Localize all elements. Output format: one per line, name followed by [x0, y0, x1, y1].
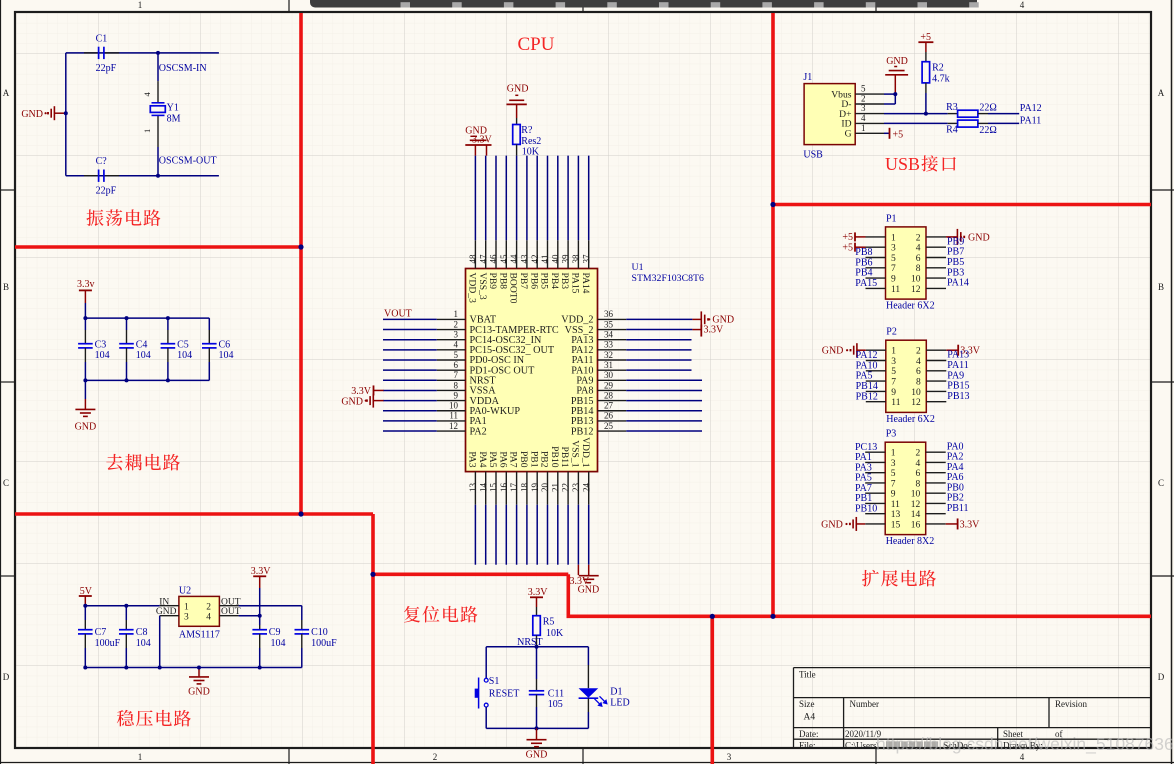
- svg-text:105: 105: [548, 699, 563, 710]
- switch S1 RESET: [485, 647, 487, 679]
- svg-text:Header 8X2: Header 8X2: [886, 536, 935, 547]
- svg-text:35: 35: [604, 319, 614, 329]
- svg-text:R2: R2: [932, 63, 944, 74]
- resistor R4: [948, 122, 958, 124]
- capacitor C3: [84, 318, 86, 330]
- svg-text:40: 40: [550, 254, 560, 264]
- section title regulator: [117, 710, 191, 727]
- svg-text:A: A: [3, 88, 10, 98]
- svg-text:11: 11: [449, 411, 458, 421]
- svg-text:VSS_3: VSS_3: [477, 273, 488, 300]
- capacitor C10: [301, 606, 303, 620]
- wire to PA12: [988, 113, 1019, 115]
- regulator U2 AMS1117: [179, 596, 220, 626]
- svg-text:AMS1117: AMS1117: [179, 630, 220, 641]
- header P3 pin 4: [926, 461, 946, 463]
- svg-text:GND: GND: [822, 346, 844, 357]
- header P3 pin 11: [865, 502, 885, 504]
- svg-text:7: 7: [454, 370, 459, 380]
- svg-text:18: 18: [520, 483, 530, 493]
- header P1 pin 12: [926, 287, 946, 289]
- svg-text:3.3v: 3.3v: [77, 279, 95, 290]
- ground GND right of U1: [692, 318, 701, 320]
- header P1 pin 4: [926, 246, 946, 248]
- svg-text:9: 9: [891, 388, 896, 398]
- svg-text:43: 43: [520, 254, 530, 264]
- svg-text:RESET: RESET: [489, 689, 520, 700]
- header P3 pin 2: [926, 451, 946, 453]
- microcontroller U1 STM32F103C8T6 body: [466, 269, 598, 472]
- svg-text:4: 4: [1020, 0, 1025, 10]
- svg-text:11: 11: [891, 500, 900, 510]
- svg-text:R3: R3: [946, 102, 958, 113]
- svg-text:S1: S1: [489, 676, 500, 687]
- svg-text:4: 4: [916, 244, 921, 254]
- U1 left wires: [383, 318, 437, 320]
- svg-text:22Ω: 22Ω: [979, 125, 996, 136]
- svg-text:42: 42: [530, 255, 540, 264]
- svg-text:PB11: PB11: [559, 447, 570, 468]
- svg-text:PB9: PB9: [487, 273, 498, 290]
- svg-text:3.3V: 3.3V: [528, 587, 549, 598]
- svg-text:104: 104: [177, 350, 192, 361]
- oscillator left wire: [65, 53, 67, 176]
- capacitor C6: [208, 318, 210, 330]
- svg-text:PB8: PB8: [497, 273, 508, 290]
- svg-text:A: A: [1158, 88, 1165, 98]
- svg-text:PA11: PA11: [1020, 115, 1042, 126]
- header P2 pin 9: [866, 390, 886, 392]
- svg-text:29: 29: [604, 380, 614, 390]
- svg-text:VDD_3: VDD_3: [467, 273, 478, 304]
- header P3 pin 6: [926, 472, 946, 474]
- header P3 pin 7: [865, 482, 885, 484]
- header P3 pin 13: [865, 513, 885, 515]
- svg-text:2: 2: [454, 319, 459, 329]
- section divider vertical x301: [299, 13, 303, 514]
- svg-text:U1: U1: [632, 262, 644, 273]
- svg-text:28: 28: [604, 390, 614, 400]
- svg-text:G: G: [845, 129, 852, 140]
- ground GND P1 pin 2: [956, 229, 958, 245]
- wire to PA11: [988, 122, 1019, 124]
- power port 3.3V P3 pin 16: [957, 518, 959, 529]
- svg-text:3.3V: 3.3V: [960, 519, 981, 530]
- header P3 pin 12: [926, 502, 946, 504]
- reset bottom rail: [486, 727, 588, 729]
- svg-text:1: 1: [454, 309, 459, 319]
- svg-text:Revision: Revision: [1055, 699, 1088, 709]
- svg-text:2: 2: [916, 347, 921, 357]
- svg-text:VSS_1: VSS_1: [570, 440, 581, 467]
- svg-text:4: 4: [206, 613, 211, 623]
- svg-text:3.3V: 3.3V: [251, 566, 272, 577]
- svg-text:10: 10: [449, 401, 459, 411]
- wire D- up to node: [884, 103, 895, 105]
- svg-text:27: 27: [604, 401, 614, 411]
- svg-text:23: 23: [571, 483, 581, 493]
- svg-text:8: 8: [916, 378, 921, 388]
- header P1 pin 1: [866, 236, 886, 238]
- svg-text:USB: USB: [803, 150, 823, 161]
- svg-text:2: 2: [915, 449, 920, 459]
- svg-text:5: 5: [891, 469, 896, 479]
- header P1 pin 9: [866, 277, 886, 279]
- svg-text:22pF: 22pF: [96, 63, 117, 74]
- svg-text:37: 37: [581, 254, 591, 264]
- ground GND USB: [894, 75, 896, 94]
- svg-text:14: 14: [478, 483, 488, 493]
- svg-text:GND: GND: [507, 84, 529, 95]
- svg-text:24: 24: [581, 483, 591, 493]
- header P3 pin 14: [926, 513, 946, 515]
- svg-text:21: 21: [550, 483, 560, 492]
- header P1 pin 2: [926, 236, 946, 238]
- svg-text:PA7: PA7: [508, 451, 519, 467]
- power port +5 P1 pin 3: [854, 243, 856, 252]
- decoupling junction dots: [83, 316, 87, 320]
- svg-text:PB11: PB11: [947, 503, 969, 514]
- svg-text:C8: C8: [136, 627, 148, 638]
- reset top rail: [486, 646, 588, 648]
- sheet outer border: [0, 0, 2, 764]
- header P2 pin 4: [926, 360, 946, 362]
- svg-text:J1: J1: [803, 72, 812, 83]
- svg-text:22pF: 22pF: [96, 186, 117, 197]
- svg-text:C1: C1: [96, 34, 108, 45]
- svg-text:10K: 10K: [546, 628, 564, 639]
- header P2 pin 7: [866, 380, 886, 382]
- U2 pin wires: [160, 605, 179, 607]
- oscillator top wire: [66, 52, 219, 54]
- svg-text:CPU: CPU: [518, 34, 555, 55]
- svg-text:1: 1: [184, 603, 189, 613]
- svg-text:PB1: PB1: [528, 451, 539, 468]
- svg-text:22: 22: [561, 483, 571, 492]
- svg-text:104: 104: [219, 350, 234, 361]
- svg-text:100uF: 100uF: [95, 638, 121, 649]
- svg-text:104: 104: [136, 350, 151, 361]
- header P3 pin 8: [926, 482, 946, 484]
- svg-text:C?: C?: [96, 156, 108, 167]
- section title expansion: [862, 570, 936, 587]
- svg-text:2: 2: [916, 233, 921, 243]
- svg-text:48: 48: [468, 254, 478, 264]
- svg-text:PA2: PA2: [470, 426, 487, 437]
- ground GND decoupling: [84, 380, 86, 399]
- header P2 pin 11: [866, 401, 886, 403]
- svg-text:19: 19: [530, 483, 540, 493]
- regulator output rail pin4: [239, 615, 260, 617]
- header P1 pin 3: [866, 246, 886, 248]
- svg-text:GND: GND: [21, 109, 43, 120]
- svg-text:14: 14: [911, 510, 921, 520]
- svg-text:5: 5: [454, 350, 459, 360]
- svg-text:PB12: PB12: [571, 426, 594, 437]
- svg-text:OSCSM-OUT: OSCSM-OUT: [159, 156, 217, 167]
- svg-text:12: 12: [449, 421, 458, 431]
- svg-text:6: 6: [916, 367, 921, 377]
- wire D+ row: [884, 113, 948, 115]
- header P3 pin 10: [926, 492, 946, 494]
- svg-text:5: 5: [891, 254, 896, 264]
- capacitor C9: [259, 616, 261, 625]
- capacitor C5: [167, 318, 169, 330]
- svg-text:VDD_1: VDD_1: [580, 437, 591, 468]
- svg-text:17: 17: [509, 483, 519, 493]
- header P3: [885, 442, 926, 534]
- svg-text:3: 3: [891, 459, 896, 469]
- U1 left pins: [437, 318, 466, 320]
- svg-text:PA14: PA14: [580, 273, 591, 294]
- svg-text:1: 1: [138, 752, 143, 762]
- svg-text:10: 10: [911, 388, 921, 398]
- svg-text:PB13: PB13: [947, 391, 969, 402]
- svg-text:STM32F103C8T6: STM32F103C8T6: [632, 273, 705, 284]
- header P2: [886, 340, 927, 412]
- svg-text:10K: 10K: [522, 146, 540, 157]
- svg-text:Title: Title: [799, 670, 816, 680]
- svg-text:PB5: PB5: [539, 273, 550, 290]
- svg-text:104: 104: [95, 350, 110, 361]
- svg-text:Number: Number: [850, 699, 880, 709]
- svg-text:45: 45: [499, 254, 509, 264]
- header P2 pin 1: [866, 349, 886, 351]
- power port 3.3V right of U1: [692, 329, 701, 331]
- svg-text:1: 1: [138, 0, 143, 10]
- svg-text:31: 31: [604, 360, 613, 370]
- regulator junction dots: [83, 604, 87, 608]
- svg-text:4: 4: [915, 459, 920, 469]
- svg-text:10: 10: [911, 490, 921, 500]
- header P3 pin 15: [865, 523, 885, 525]
- header P2 pin 12: [926, 401, 946, 403]
- capacitor C11: [536, 647, 538, 679]
- svg-text:USB: USB: [885, 154, 920, 174]
- section divider vertical x773: [771, 13, 775, 616]
- svg-text:3.3V: 3.3V: [704, 325, 725, 336]
- svg-text:2: 2: [433, 752, 438, 762]
- wire Vbus to GND node: [884, 93, 895, 95]
- svg-text:PB10: PB10: [549, 446, 560, 468]
- svg-text:GND: GND: [578, 585, 600, 596]
- section divider horizontal y204: [773, 203, 1151, 207]
- header P3 pin 16: [926, 523, 946, 525]
- header P1 pin 8: [926, 267, 946, 269]
- crystal Y1: [157, 53, 159, 81]
- svg-text:U2: U2: [179, 586, 191, 597]
- svg-text:3: 3: [454, 330, 459, 340]
- svg-text:41: 41: [540, 255, 550, 264]
- header P1 pin 6: [926, 257, 946, 259]
- svg-text:46: 46: [489, 254, 499, 264]
- svg-text:16: 16: [911, 520, 921, 530]
- header P2 pin 10: [926, 390, 946, 392]
- wire ID row: [884, 122, 948, 124]
- svg-text:B: B: [1158, 282, 1164, 292]
- capacitor C4: [126, 318, 128, 330]
- resistor R7: [513, 125, 521, 145]
- ruler ticks: [288, 0, 290, 12]
- power port +5 P1 pin 1: [854, 232, 856, 241]
- svg-text:PA3: PA3: [467, 451, 478, 467]
- svg-text:104: 104: [136, 638, 151, 649]
- section divider horizontal y514: [15, 512, 373, 516]
- header P1 pin 7: [866, 267, 886, 269]
- U1 right pins: [598, 318, 627, 320]
- svg-text:C9: C9: [269, 627, 281, 638]
- junction dot R2-D+: [924, 112, 928, 116]
- svg-text:PB12: PB12: [856, 391, 878, 402]
- svg-text:6: 6: [454, 360, 459, 370]
- header P1 pin 11: [866, 287, 886, 289]
- svg-text:PB7: PB7: [518, 273, 529, 290]
- svg-text:4: 4: [916, 357, 921, 367]
- svg-text:3.3V: 3.3V: [351, 386, 372, 397]
- U1 top wires: [474, 156, 476, 241]
- junction dot Vbus: [893, 92, 897, 96]
- ground GND P2 pin 1: [856, 343, 858, 357]
- svg-text:LED: LED: [610, 698, 629, 709]
- svg-text:https://blog.csdn.net/weixin_5: https://blog.csdn.net/weixin_51087636: [876, 734, 1174, 755]
- svg-text:A4: A4: [804, 713, 816, 723]
- svg-text:5: 5: [891, 367, 896, 377]
- header P2 pin 3: [866, 360, 886, 362]
- svg-text:GND: GND: [75, 422, 97, 433]
- svg-text:D: D: [3, 672, 10, 682]
- svg-text:R4: R4: [946, 125, 958, 136]
- svg-text:12: 12: [911, 500, 921, 510]
- svg-text:PA15: PA15: [570, 273, 581, 294]
- capacitor C8: [125, 606, 127, 620]
- svg-text:12: 12: [911, 285, 921, 295]
- resistor R3: [948, 113, 958, 115]
- svg-text:12: 12: [911, 398, 921, 408]
- svg-text:GND: GND: [341, 397, 363, 408]
- regulator bottom rail: [85, 667, 301, 669]
- svg-text:9: 9: [891, 490, 896, 500]
- svg-text:5: 5: [861, 84, 866, 94]
- resistor R5: [533, 616, 541, 636]
- reset junction dots: [535, 645, 539, 649]
- svg-text:+5: +5: [842, 242, 853, 253]
- svg-text:4.7k: 4.7k: [932, 74, 950, 85]
- svg-text:100uF: 100uF: [311, 638, 337, 649]
- svg-text:GND: GND: [188, 687, 210, 698]
- svg-text:Size: Size: [799, 699, 815, 709]
- U1 top pins: [474, 240, 476, 268]
- svg-text:7: 7: [891, 264, 896, 274]
- svg-text:15: 15: [489, 483, 499, 493]
- svg-text:20: 20: [540, 483, 550, 493]
- svg-text:C: C: [1158, 478, 1164, 488]
- svg-text:OSCSM-IN: OSCSM-IN: [159, 63, 207, 74]
- header P1 pin 5: [866, 257, 886, 259]
- svg-text:GND: GND: [886, 56, 908, 67]
- svg-text:Res2: Res2: [521, 136, 541, 147]
- svg-text:+5: +5: [893, 129, 904, 140]
- svg-text:PB3: PB3: [559, 273, 570, 290]
- svg-text:16: 16: [499, 483, 509, 493]
- svg-text:33: 33: [604, 340, 614, 350]
- svg-text:PA5: PA5: [487, 451, 498, 467]
- decoupling bottom bus wire: [85, 379, 209, 381]
- svg-text:39: 39: [561, 254, 571, 264]
- J1 pins: [855, 93, 884, 95]
- svg-text:Date:: Date:: [799, 729, 819, 739]
- ground GND regulator: [198, 668, 200, 677]
- header P2 pin 8: [926, 380, 946, 382]
- svg-text:13: 13: [468, 483, 478, 493]
- regulator top rail: [85, 605, 159, 607]
- svg-text:GND: GND: [526, 750, 548, 761]
- svg-text:3: 3: [184, 613, 189, 623]
- svg-text:GND: GND: [821, 519, 843, 530]
- section divider vertical x373: [371, 514, 375, 764]
- power port 3.3V below U1 pin23: [577, 565, 579, 575]
- svg-text:GND: GND: [968, 232, 990, 243]
- svg-text:9: 9: [891, 275, 896, 285]
- svg-text:8: 8: [915, 479, 920, 489]
- svg-text:D1: D1: [610, 687, 622, 698]
- svg-text:PA15: PA15: [855, 278, 877, 289]
- svg-text:1: 1: [142, 129, 152, 133]
- svg-text:1: 1: [891, 347, 896, 357]
- svg-text:22Ω: 22Ω: [979, 103, 996, 114]
- svg-text:4: 4: [861, 113, 866, 123]
- file path CJK blob: [886, 741, 938, 748]
- svg-text:36: 36: [604, 309, 614, 319]
- USB connector J1: [804, 84, 855, 145]
- U1 bottom wires: [474, 505, 476, 565]
- svg-text:8: 8: [454, 380, 459, 390]
- svg-text:15: 15: [891, 520, 901, 530]
- svg-text:D: D: [1158, 672, 1165, 682]
- svg-text:6: 6: [916, 254, 921, 264]
- svg-text:25: 25: [604, 421, 614, 431]
- svg-text:9: 9: [454, 390, 459, 400]
- capacitor C1: [84, 52, 99, 54]
- svg-text:BOOT0: BOOT0: [508, 273, 519, 304]
- svg-text:4: 4: [454, 340, 459, 350]
- section title oscillator: [86, 209, 160, 226]
- U1 bottom pins: [474, 472, 476, 505]
- svg-text:2: 2: [861, 94, 866, 104]
- section divider vertical x712: [710, 616, 714, 764]
- svg-text:P2: P2: [886, 327, 897, 338]
- svg-text:Header 6X2: Header 6X2: [886, 301, 935, 312]
- svg-text:30: 30: [604, 370, 614, 380]
- U2 GND pin wire down: [159, 616, 161, 668]
- svg-text:3: 3: [891, 244, 896, 254]
- title block frame: [794, 667, 1152, 669]
- ground GND P3 pin 15: [855, 517, 857, 531]
- svg-text:34: 34: [604, 330, 614, 340]
- capacitor C2: [84, 175, 99, 177]
- svg-text:1: 1: [891, 449, 896, 459]
- U1 right wires: [626, 318, 692, 320]
- svg-text:B: B: [3, 282, 9, 292]
- svg-text:11: 11: [891, 398, 900, 408]
- svg-text:10: 10: [911, 275, 921, 285]
- divider junction dots: [298, 244, 303, 249]
- svg-text:8M: 8M: [167, 114, 181, 125]
- svg-text:Y1: Y1: [167, 103, 179, 114]
- svg-text:C7: C7: [95, 627, 107, 638]
- header P3 pin 3: [865, 461, 885, 463]
- section divider vertical x568: [566, 574, 570, 616]
- svg-text:13: 13: [891, 510, 901, 520]
